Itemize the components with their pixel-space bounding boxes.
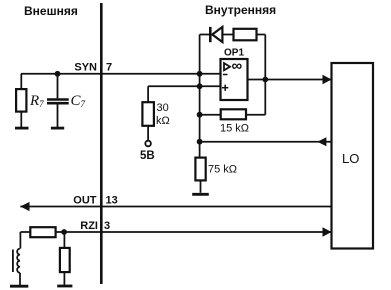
wire: RZI net <box>56 231 331 233</box>
wire: diode to feedback resistor <box>222 34 233 36</box>
resistor 75 kΩ <box>195 158 205 193</box>
boundary line: external/internal divider <box>100 3 103 284</box>
ground (under R7) <box>15 127 29 130</box>
arrowhead into LO (RZI line) <box>323 227 332 237</box>
node: junction noninverting input / bus <box>197 83 203 89</box>
ground (under inductor) <box>10 285 28 288</box>
capacitor C7 <box>47 74 69 127</box>
svg-text:5В: 5В <box>140 150 155 162</box>
resistor 30 kΩ <box>142 86 154 140</box>
wire: SYN net horizontal (to op-amp inverting input) <box>21 73 221 75</box>
box LO <box>332 63 374 249</box>
wire: feedback top left segment <box>200 34 210 36</box>
svg-text:75 kΩ: 75 kΩ <box>208 164 237 176</box>
node: 15k / bus junction <box>197 112 203 118</box>
arrowhead OUT (pointing left) <box>20 202 29 211</box>
inductor L1 (with core bar) <box>13 249 20 285</box>
wire: noninverting input line <box>148 85 220 87</box>
wire: down to inductor <box>19 232 21 249</box>
node: RZI junction <box>61 229 67 235</box>
node: junction bus / LO line <box>197 139 203 145</box>
wire: op-amp output to LO <box>248 79 332 81</box>
node: output / feedback junction <box>262 77 268 83</box>
wire: feedback right vertical (output node) <box>264 35 266 115</box>
resistor 15 kΩ <box>200 109 266 119</box>
svg-text:Внутренняя: Внутренняя <box>205 3 276 17</box>
wire: reference node to LO (arrow out of LO) <box>200 141 331 143</box>
arrowhead into LO (output line) <box>323 75 332 85</box>
resistor (series in RZI) <box>20 227 55 237</box>
wire: OUT net <box>20 206 331 208</box>
svg-text:OUT: OUT <box>73 195 97 207</box>
arrowhead pointing left on LO line <box>317 137 326 146</box>
node: SYN junction at C7 <box>55 71 61 77</box>
svg-text:kΩ: kΩ <box>156 115 170 127</box>
node: junction SYN / feedback bus <box>197 71 203 77</box>
feedback resistor (no value) <box>234 29 257 41</box>
resistor R7 <box>16 74 26 127</box>
op-amp OP1 body <box>221 58 248 101</box>
svg-text:Внешняя: Внешняя <box>24 4 78 18</box>
diode D1 (cathode left) <box>209 27 222 42</box>
svg-text:3: 3 <box>104 220 110 232</box>
svg-text:13: 13 <box>106 195 118 207</box>
wire: feedback resistor to right vertical <box>257 34 266 36</box>
resistor (shunt on RZI) <box>60 232 70 285</box>
svg-text:RZI: RZI <box>80 220 98 232</box>
svg-text:SYN: SYN <box>74 62 97 74</box>
wire: feedback left vertical (inputs bus) <box>199 35 201 158</box>
ground (under C7) <box>51 127 64 130</box>
svg-text:15 kΩ: 15 kΩ <box>220 123 249 135</box>
ground (under 75 kΩ) <box>192 193 209 196</box>
svg-text:LO: LO <box>342 151 359 166</box>
ground (under shunt resistor) <box>57 285 72 288</box>
svg-text:7: 7 <box>106 62 112 74</box>
svg-text:∞: ∞ <box>232 58 243 75</box>
terminal: 5V open circle <box>145 141 151 147</box>
svg-text:30: 30 <box>157 102 169 114</box>
